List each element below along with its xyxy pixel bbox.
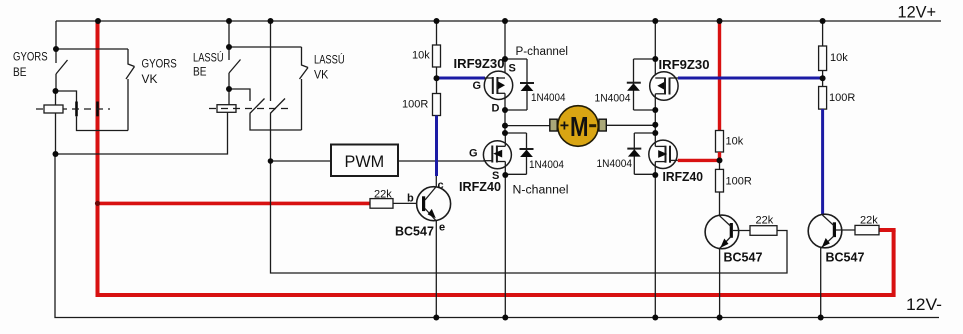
svg-text:12V-: 12V-: [906, 296, 942, 314]
diode D3 1N4004: [627, 59, 656, 110]
switch LASSU VK: [300, 47, 309, 130]
svg-text:22k: 22k: [756, 215, 774, 227]
junction dots top rail: [95, 18, 826, 24]
diode D2 1N4004: [505, 133, 534, 174]
wire feedback to right BC547 base: [271, 161, 788, 273]
junction dot PWM node: [268, 158, 274, 164]
label Q3 BC547: [826, 251, 865, 265]
wire red base feed: [98, 202, 371, 206]
svg-text:LASSÚ: LASSÚ: [314, 54, 345, 67]
wire Q2 emitter to rail: [719, 249, 721, 318]
svg-text:G: G: [473, 80, 482, 92]
wire to LASSU VK: [229, 46, 302, 48]
svg-text:LASSÚ: LASSÚ: [193, 52, 224, 65]
wire Q1 collector stub: [435, 176, 437, 187]
wire blue R2 to Q1 collector: [435, 116, 438, 177]
svg-text:BC547: BC547: [826, 251, 865, 265]
svg-text:IRFZ40: IRFZ40: [663, 170, 704, 184]
label U2 pins: [469, 148, 499, 183]
node 12V+ rail: [56, 20, 941, 22]
wire PWM input: [271, 160, 332, 162]
wire LASSU branch top: [228, 21, 230, 60]
wire to GYORS VK: [56, 48, 128, 50]
label Q1 BC547: [395, 225, 434, 239]
svg-text:10k: 10k: [830, 52, 848, 64]
wire Q3 emitter to rail: [820, 248, 822, 318]
svg-text:e: e: [439, 222, 445, 234]
relay contact K1 bar B: [96, 102, 99, 117]
wire coil K2 top: [228, 89, 230, 105]
svg-text:IRF9Z30: IRF9Z30: [659, 58, 710, 72]
wire PWM output: [398, 160, 485, 162]
switch GYORS BE: [56, 60, 68, 91]
resistor R6 22k: [750, 215, 777, 236]
wire node to R2: [436, 79, 438, 94]
mosfet U2 IRFZ40 N-channel: [483, 141, 511, 169]
svg-text:1N4004: 1N4004: [529, 159, 564, 171]
svg-text:+: +: [560, 118, 569, 135]
wire contact K1 bottom: [77, 116, 129, 130]
relay coil K2: [217, 105, 236, 113]
svg-text:S: S: [509, 63, 516, 75]
svg-text:1N4004: 1N4004: [597, 158, 633, 170]
label 12V+: [898, 4, 937, 22]
resistor R3 22k: [370, 189, 393, 209]
label N-channel: [513, 185, 569, 197]
junction dots relays: [53, 44, 233, 157]
wire coil K1 bottom: [55, 113, 57, 154]
resistor R5 100R: [716, 169, 752, 192]
junction dots right bridge: [652, 56, 658, 178]
svg-text:P-channel: P-channel: [516, 46, 569, 58]
wire coil K1 top: [55, 91, 57, 105]
label LASSU BE: [193, 52, 224, 79]
svg-text:IRFZ40: IRFZ40: [459, 180, 501, 194]
resistor R8 100R: [819, 87, 856, 110]
label U2 IRFZ40: [459, 180, 501, 194]
wire rail to U3 source: [654, 21, 656, 78]
wire GYORS branch top: [55, 21, 57, 63]
wire contact K2b bottom: [270, 114, 272, 162]
switch LASSU BE: [229, 60, 241, 90]
svg-text:VK: VK: [142, 74, 158, 86]
svg-text:12V+: 12V+: [898, 4, 937, 22]
label Q2 BC547: [724, 251, 763, 265]
label GYORS BE: [13, 52, 48, 80]
wire U1 drain: [504, 93, 506, 110]
block PWM: [331, 145, 398, 177]
wire rail to R1: [436, 21, 438, 45]
resistor R4 10k: [716, 131, 744, 153]
junction dots left chain: [434, 75, 440, 81]
wire coil commons: [56, 112, 228, 154]
wire blue R8 to Q3 collector: [821, 109, 824, 215]
relay coil K1 linkage dashed: [36, 108, 110, 110]
svg-text:G: G: [469, 148, 478, 160]
wire U2 source: [504, 162, 506, 176]
svg-text:VK: VK: [314, 70, 329, 82]
wire red gate U4: [678, 159, 720, 162]
label U1 IRF9Z30: [454, 57, 505, 71]
transistor Q2 BC547: [705, 215, 739, 249]
svg-text:M: M: [570, 111, 589, 142]
relay contact K2a blade: [250, 99, 265, 114]
label U4 IRFZ40: [663, 170, 704, 184]
wire motor node left: [504, 110, 506, 133]
label LASSU VK: [314, 54, 345, 82]
wire blue gate U3: [678, 77, 823, 80]
svg-text:c: c: [438, 180, 444, 192]
wire red R4 to gate node: [718, 152, 721, 160]
label P-channel: [516, 46, 569, 58]
wire R5 to Q2 collector: [719, 192, 721, 216]
relay contact K1 bar A: [75, 102, 78, 117]
label D1 1N4004: [531, 92, 566, 104]
wire motor right lead: [606, 124, 655, 126]
switch GYORS VK: [126, 49, 135, 131]
wire contact K2a top: [229, 89, 250, 101]
wire Q2 base to R6: [733, 230, 750, 232]
transistor Q1 BC547: [417, 187, 451, 222]
svg-text:D: D: [492, 103, 500, 115]
label 12V-: [906, 296, 942, 314]
wire U4 drain up: [654, 133, 656, 146]
svg-text:100R: 100R: [726, 176, 752, 188]
resistor R1 10k: [412, 45, 441, 67]
svg-text:BC547: BC547: [724, 251, 763, 265]
svg-text:BE: BE: [193, 67, 207, 79]
label D4 1N4004: [597, 158, 633, 170]
wire gate node to R5: [719, 160, 721, 169]
relay contact K2b blade: [270, 99, 285, 114]
diode D4 1N4004: [627, 133, 655, 174]
wire motor left lead: [505, 125, 550, 127]
svg-text:PWM: PWM: [345, 152, 385, 171]
svg-text:1N4004: 1N4004: [531, 92, 566, 104]
junction dots left bridge: [502, 56, 508, 178]
resistor R7 10k: [819, 46, 849, 71]
motor M1 body: [558, 106, 599, 147]
wire R7 to node: [822, 71, 824, 79]
motor M1 terminal left: [550, 119, 557, 131]
svg-text:GYORS: GYORS: [142, 59, 178, 71]
wire contact K1 top: [56, 91, 77, 102]
svg-text:22k: 22k: [374, 189, 392, 201]
wire contact K2a bottom: [250, 114, 302, 131]
junction dots right chains: [717, 75, 826, 163]
svg-text:BE: BE: [13, 67, 27, 79]
wire R1 to node: [436, 67, 438, 79]
label U3 IRF9Z30: [659, 58, 710, 72]
motor M1 terminal right: [599, 119, 606, 131]
svg-text:100R: 100R: [829, 92, 855, 104]
label GYORS VK: [142, 59, 178, 87]
label motor +M-: [560, 111, 596, 142]
relay coil K2 linkage dashed: [209, 108, 290, 110]
wire motor node right: [654, 110, 656, 133]
wire rail to U1 source: [504, 21, 506, 78]
wire red main loop: [98, 21, 894, 295]
junction dot red base feed: [95, 201, 100, 206]
junction dots bottom rail: [433, 315, 823, 321]
svg-text:N-channel: N-channel: [513, 185, 569, 197]
label D3 1N4004: [595, 93, 631, 105]
wire red R9 to loop: [879, 228, 896, 232]
wire red rail to R4: [718, 21, 721, 131]
wire node to R8: [822, 78, 824, 86]
wire U3 drain: [654, 94, 656, 110]
label Q1 pins: [407, 180, 445, 234]
svg-text:GYORS: GYORS: [13, 52, 48, 64]
svg-text:10k: 10k: [412, 50, 430, 62]
mosfet U3 IRF9Z30 P-channel mirrored: [650, 72, 678, 100]
relay coil K1: [44, 105, 63, 113]
wire rail to R7: [822, 21, 824, 46]
resistor R2 100R: [402, 94, 441, 116]
node 12V- rail: [55, 154, 939, 318]
diode D1 1N4004: [505, 59, 534, 110]
mosfet U4 IRFZ40 N-channel mirrored: [649, 140, 678, 168]
svg-text:BC547: BC547: [395, 225, 434, 239]
wire blue gate left IRF9Z30: [437, 77, 486, 80]
svg-text:22k: 22k: [860, 215, 878, 227]
svg-text:100R: 100R: [402, 99, 428, 111]
svg-text:10k: 10k: [726, 136, 744, 148]
svg-text:1N4004: 1N4004: [595, 93, 631, 105]
wire U2 source to rail: [504, 175, 506, 318]
wire Q3 base to R9: [836, 229, 855, 231]
label D2 1N4004: [529, 159, 564, 171]
label U1 pins: [473, 63, 516, 115]
wire Q1 emitter to rail: [435, 221, 437, 318]
mosfet U1 IRF9Z30 P-channel: [484, 71, 512, 99]
resistor R9 22k: [855, 215, 879, 235]
wire U4 source to rail: [654, 175, 656, 318]
svg-text:IRF9Z30: IRF9Z30: [454, 57, 505, 71]
wire U4 source: [654, 162, 656, 175]
transistor Q3 BC547: [808, 214, 842, 248]
wire R3 to Q1 base: [393, 202, 422, 204]
wire U2 drain up: [504, 133, 506, 146]
svg-text:b: b: [407, 193, 414, 205]
wire contact K2b top: [270, 21, 272, 101]
